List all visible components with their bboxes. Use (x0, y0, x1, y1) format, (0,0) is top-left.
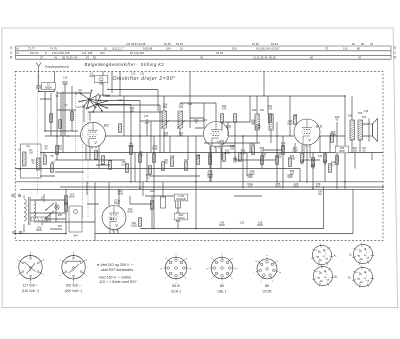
svg-text:S: S (394, 46, 396, 50)
svg-text:8000: 8000 (36, 229, 42, 232)
svg-text:8000: 8000 (127, 211, 133, 214)
svg-text:42: 42 (358, 55, 362, 59)
svg-text:0.3M: 0.3M (121, 164, 127, 167)
svg-text:S31: S31 (260, 109, 265, 112)
svg-text:81: 81 (352, 42, 356, 46)
svg-text:2M: 2M (164, 162, 167, 165)
svg-text:S13: S13 (184, 159, 189, 162)
svg-text:63,64: 63,64 (271, 42, 278, 46)
svg-text:500pF: 500pF (45, 86, 53, 89)
svg-text:61,62: 61,62 (252, 42, 259, 46)
svg-text:1M: 1M (29, 152, 32, 155)
svg-text:92 9,(1)102: 92 9,(1)102 (130, 51, 145, 55)
svg-text:127 Volt ∼: 127 Volt ∼ (23, 283, 39, 287)
svg-text:C21: C21 (163, 106, 168, 109)
svg-text:C33: C33 (318, 155, 323, 158)
svg-text:113 4,101,105: 113 4,101,105 (52, 51, 70, 55)
svg-text:110: 110 (343, 47, 348, 51)
svg-text:61,106,104, 62,107: 61,106,104, 62,107 (256, 47, 280, 51)
svg-text:S22: S22 (203, 119, 208, 122)
svg-text:B2 Ø: B2 Ø (172, 284, 180, 288)
svg-text:B3: B3 (226, 124, 232, 129)
svg-text:0.1: 0.1 (260, 150, 264, 153)
svg-text:Ved 150 V ∼ nettes: Ved 150 V ∼ nettes (99, 276, 131, 280)
svg-text:5000: 5000 (128, 145, 134, 148)
svg-text:8000: 8000 (69, 196, 75, 199)
svg-text:41: 41 (16, 51, 20, 55)
svg-text:5000: 5000 (224, 152, 230, 155)
svg-text:UBL 1: UBL 1 (217, 290, 226, 294)
svg-text:C₁: C₁ (349, 253, 352, 257)
svg-text:0.1: 0.1 (146, 177, 150, 180)
svg-text:79: 79 (370, 42, 374, 46)
svg-text:g₁: g₁ (189, 268, 191, 270)
svg-text:skal R37 kortsluttes: skal R37 kortsluttes (101, 268, 133, 272)
svg-text:12,11,35,34, 36,35: 12,11,35,34, 36,35 (253, 55, 276, 59)
svg-text:10000μF: 10000μF (176, 198, 186, 201)
svg-text:R37: R37 (58, 225, 63, 228)
svg-text:8000: 8000 (219, 224, 225, 227)
svg-text:360: 360 (179, 135, 184, 138)
svg-text:110: 110 (130, 110, 135, 113)
svg-text:Bølgelængdeomskifter · Stillin: Bølgelængdeomskifter · Stilling K2 (85, 62, 165, 67)
svg-text:43 33: 43 33 (216, 51, 223, 55)
svg-text:50μF: 50μF (114, 202, 120, 205)
svg-text:50pF: 50pF (255, 127, 261, 130)
svg-text:C28: C28 (364, 110, 369, 113)
svg-text:R: R (394, 55, 397, 59)
svg-text:C40: C40 (222, 108, 227, 111)
svg-text:C41: C41 (268, 108, 273, 111)
svg-text:180Ω: 180Ω (293, 186, 299, 189)
svg-text:500Ω: 500Ω (275, 186, 281, 189)
svg-text:0.5M: 0.5M (240, 152, 246, 155)
svg-text:10: 10 (180, 47, 184, 51)
svg-text:0.2M: 0.2M (330, 134, 336, 137)
svg-text:C11: C11 (140, 73, 145, 76)
svg-text:2M: 2M (58, 148, 61, 151)
svg-text:C35: C35 (240, 222, 245, 225)
svg-text:51,52: 51,52 (164, 42, 171, 46)
svg-text:5000: 5000 (339, 150, 345, 153)
svg-text:A₁: A₁ (334, 254, 337, 258)
svg-text:S10: S10 (118, 99, 123, 102)
svg-text:80: 80 (357, 47, 361, 51)
svg-text:S38: S38 (348, 115, 353, 118)
svg-text:R37: R37 (58, 214, 63, 217)
svg-text:50pF: 50pF (152, 148, 158, 151)
svg-text:109: 109 (232, 47, 237, 51)
svg-text:UG 33,57,34,38: UG 33,57,34,38 (126, 42, 146, 46)
svg-text:110 ∼ i Serie med R37: 110 ∼ i Serie med R37 (99, 280, 137, 284)
svg-text:S12: S12 (170, 155, 175, 158)
svg-text:51: 51 (86, 55, 90, 59)
svg-text:S44: S44 (73, 235, 78, 238)
svg-text:g₃: g₃ (207, 268, 209, 270)
svg-text:10: 10 (104, 47, 108, 51)
svg-text:74pF: 74pF (98, 79, 104, 82)
svg-text:B 5: B 5 (316, 124, 323, 129)
svg-text:0.5M: 0.5M (289, 158, 295, 161)
svg-text:g₃: g₃ (161, 268, 163, 270)
svg-text:37: 37 (40, 55, 44, 59)
svg-text:60: 60 (310, 55, 314, 59)
svg-text:9,11,11, 7: 9,11,11, 7 (112, 47, 124, 51)
svg-text:● Ved 110 og 200 V ∼: ● Ved 110 og 200 V ∼ (97, 263, 134, 267)
svg-text:g₁: g₁ (235, 268, 237, 270)
svg-text:S40: S40 (362, 116, 367, 119)
svg-text:Pladeantenne: Pladeantenne (45, 65, 69, 69)
svg-text:41: 41 (54, 55, 58, 59)
svg-text:S39: S39 (358, 112, 363, 115)
svg-text:C13: C13 (144, 115, 149, 118)
svg-text:g₂: g₂ (231, 258, 233, 260)
svg-text:111, 108: 111, 108 (82, 51, 93, 55)
svg-text:220 Volt ∼: 220 Volt ∼ (66, 283, 82, 287)
svg-text:100: 100 (230, 148, 235, 151)
svg-text:B2: B2 (104, 123, 110, 128)
svg-text:C10: C10 (131, 73, 136, 76)
svg-text:S16: S16 (188, 103, 193, 106)
svg-text:5000: 5000 (292, 150, 298, 153)
svg-text:9,50,38: 9,50,38 (143, 47, 153, 51)
svg-text:5000: 5000 (257, 224, 263, 227)
svg-text:(200 Volt ∼): (200 Volt ∼) (65, 289, 83, 293)
svg-text:700: 700 (311, 167, 316, 170)
svg-text:S42: S42 (150, 190, 155, 193)
svg-text:74,76: 74,76 (50, 47, 57, 51)
svg-text:5000: 5000 (276, 156, 282, 159)
svg-text:75: 75 (325, 47, 329, 51)
svg-text:B₁: B₁ (335, 275, 338, 279)
svg-text:B5: B5 (220, 284, 224, 288)
svg-text:UY1N: UY1N (263, 290, 272, 294)
svg-text:UCH 1: UCH 1 (171, 290, 181, 294)
svg-text:1M: 1M (290, 173, 293, 176)
svg-text:150Ω: 150Ω (131, 225, 137, 228)
svg-text:S30: S30 (252, 109, 257, 112)
svg-text:1M: 1M (220, 143, 223, 146)
svg-text:1000Ω: 1000Ω (177, 217, 185, 220)
svg-text:42: 42 (200, 55, 204, 59)
svg-text:g₂: g₂ (185, 258, 187, 260)
svg-text:C19: C19 (63, 77, 68, 80)
svg-text:g₁: g₁ (279, 272, 281, 274)
svg-text:103: 103 (100, 51, 105, 55)
svg-text:50: 50 (93, 55, 97, 59)
svg-text:S17: S17 (145, 122, 150, 125)
svg-text:82: 82 (361, 42, 365, 46)
svg-text:g₃: g₃ (255, 260, 257, 262)
svg-text:360: 360 (164, 135, 169, 138)
svg-text:D₁: D₁ (348, 276, 351, 280)
svg-text:41: 41 (16, 47, 20, 51)
svg-text:B4: B4 (110, 216, 116, 221)
svg-text:C: C (394, 51, 397, 55)
svg-text:56,70,39, 40: 56,70,39, 40 (62, 55, 78, 59)
svg-text:0.5M: 0.5M (117, 193, 123, 196)
svg-text:(110 Volt ∼): (110 Volt ∼) (22, 289, 40, 293)
svg-text:120: 120 (248, 186, 253, 189)
svg-text:5000: 5000 (207, 173, 213, 176)
svg-text:Omskifter drejer 2×90°: Omskifter drejer 2×90° (113, 76, 176, 82)
svg-text:500: 500 (316, 186, 321, 189)
svg-text:5000: 5000 (249, 173, 255, 176)
svg-text:50pF: 50pF (287, 123, 293, 126)
svg-text:150: 150 (353, 150, 358, 153)
svg-text:S: S (10, 46, 12, 50)
svg-text:300: 300 (139, 154, 144, 157)
svg-text:100,14: 100,14 (30, 51, 39, 55)
svg-text:g₂: g₂ (277, 260, 279, 262)
svg-text:104: 104 (166, 47, 171, 51)
svg-text:S11: S11 (251, 143, 256, 146)
svg-text:0.1: 0.1 (331, 164, 335, 167)
svg-text:72,77: 72,77 (28, 47, 35, 51)
svg-text:B8: B8 (265, 284, 269, 288)
svg-text:C23: C23 (179, 106, 184, 109)
svg-text:53,54: 53,54 (176, 42, 183, 46)
